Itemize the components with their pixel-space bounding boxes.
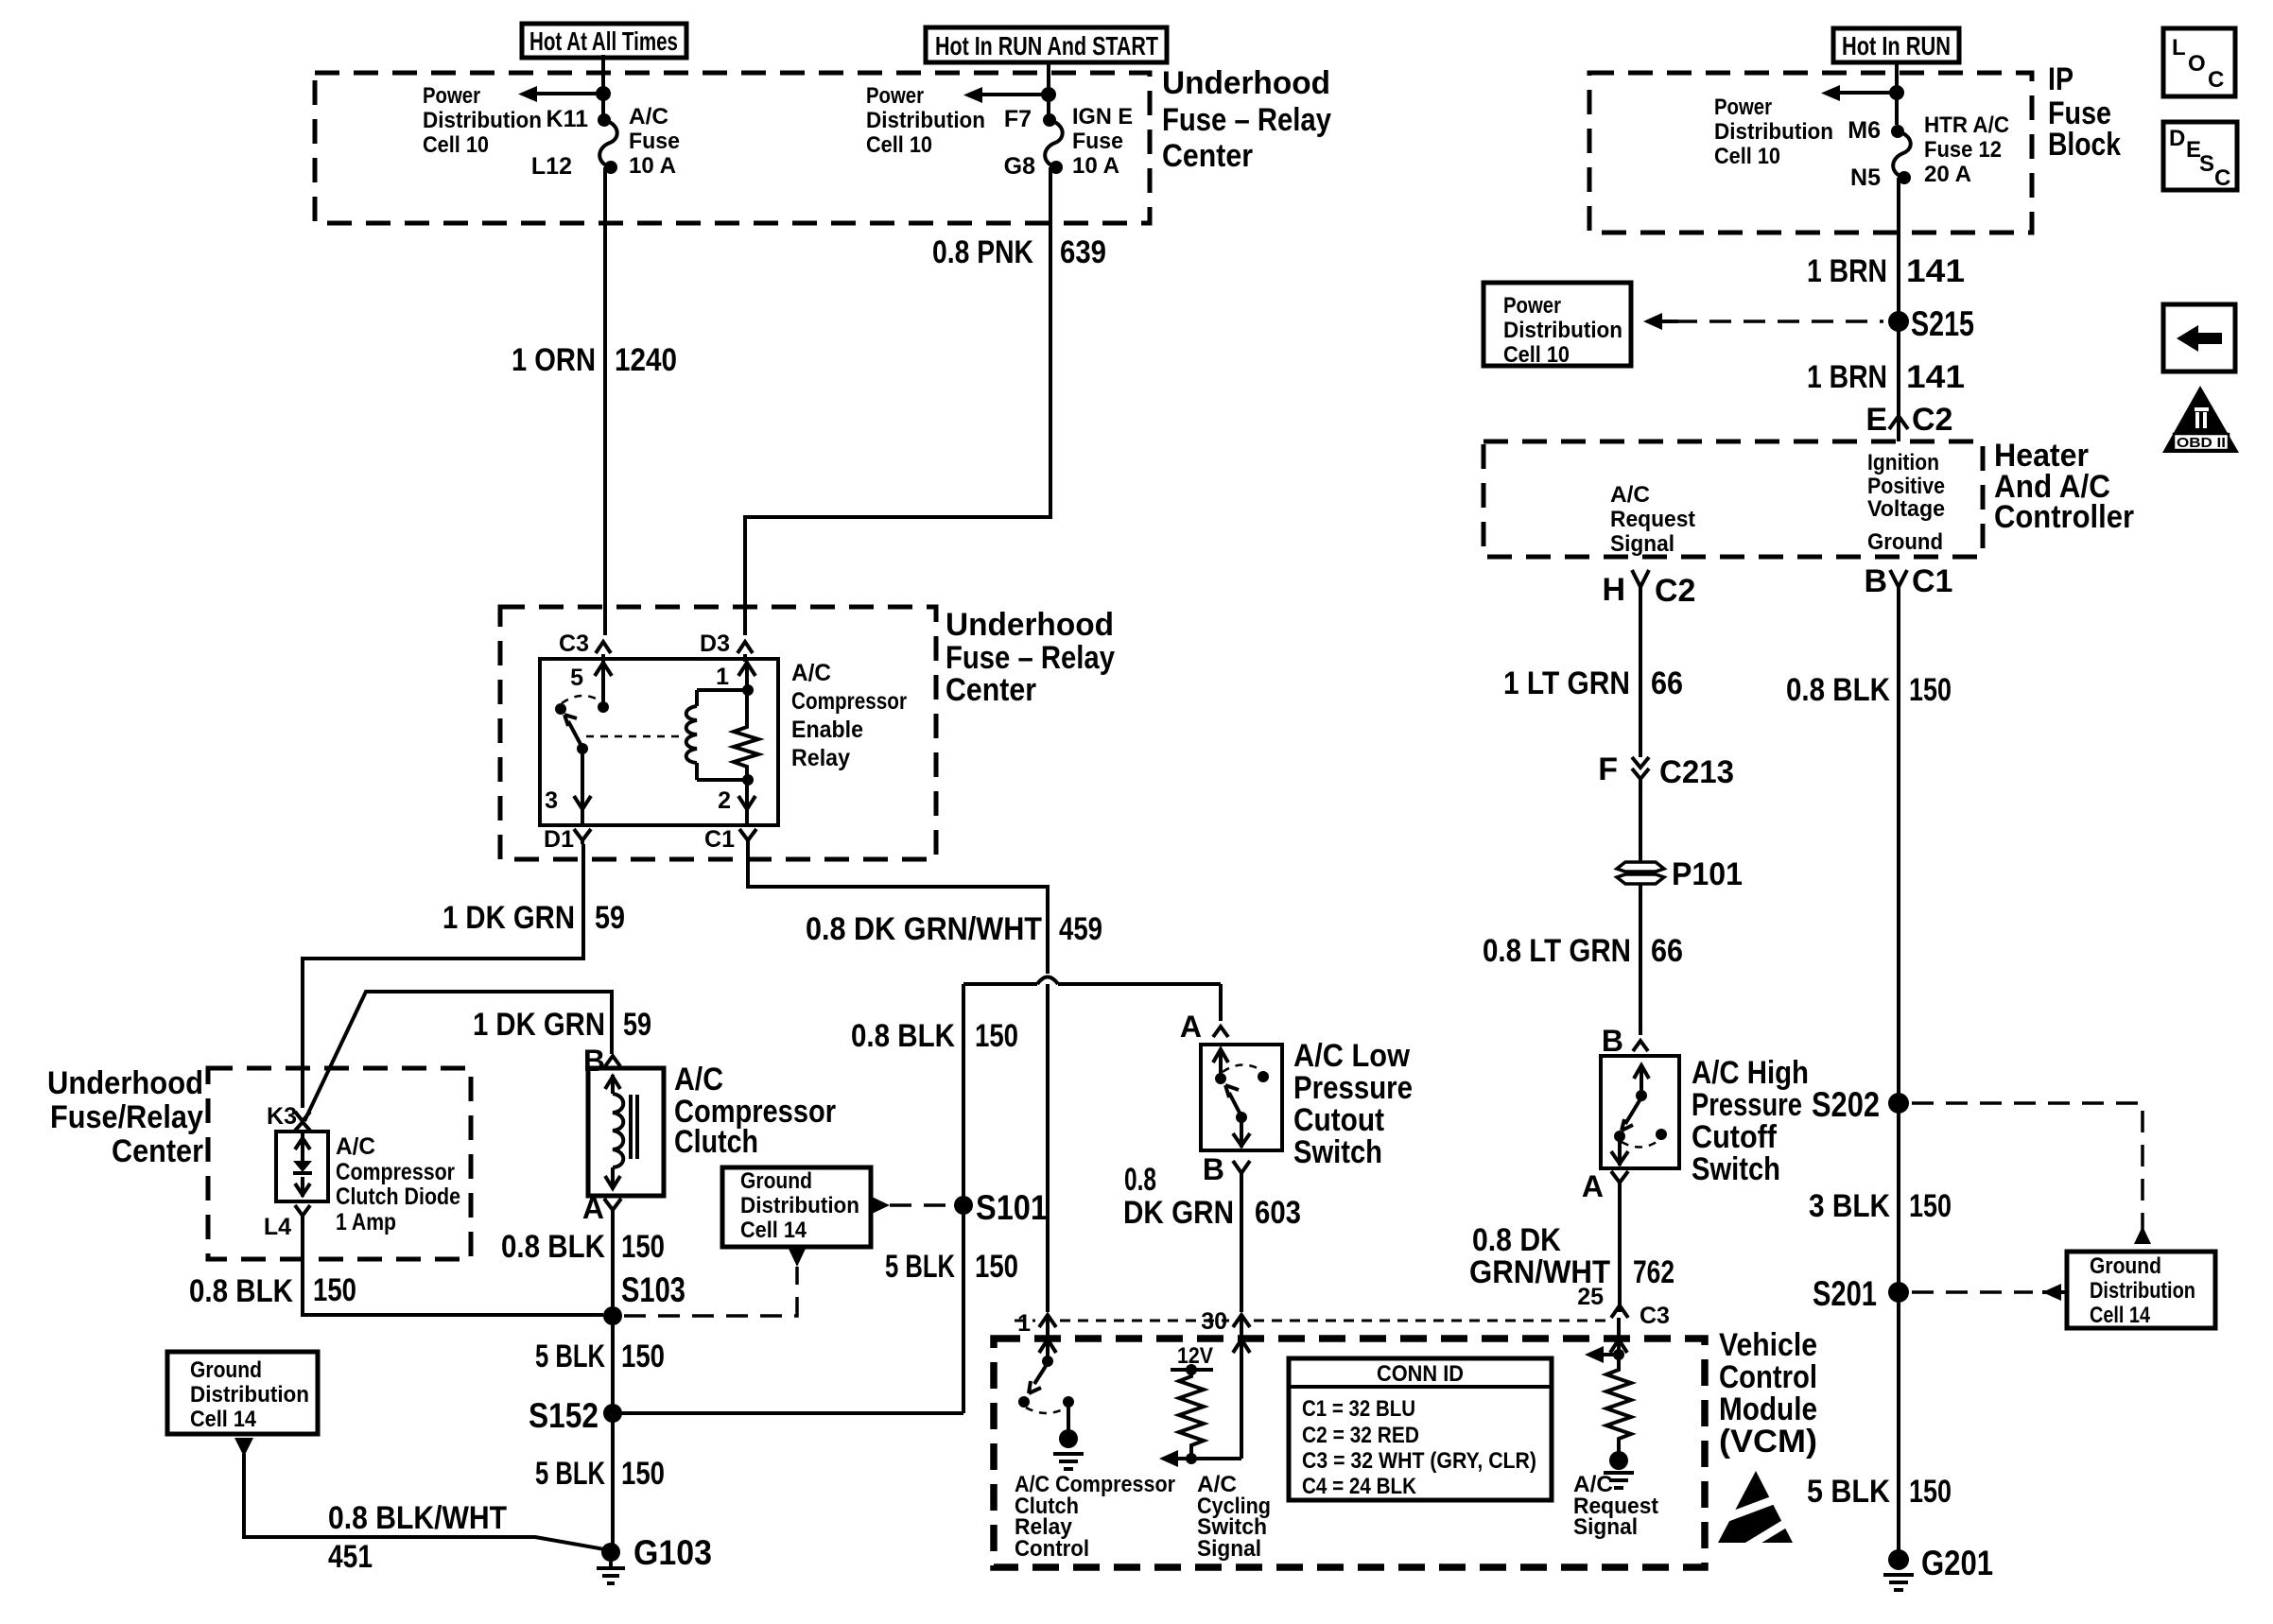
- svg-text:Cutoff: Cutoff: [1692, 1119, 1778, 1155]
- LOC icon box: [2163, 28, 2235, 96]
- label A/C Fuse 10 A: [629, 104, 680, 179]
- connector K3 symbol: [295, 1112, 310, 1131]
- label Underhood Fuse/Relay Center (left): [47, 1065, 203, 1169]
- label 0.8 LT GRN 66: [1483, 933, 1683, 969]
- pull-up resistor (cycling switch): [1179, 1370, 1204, 1455]
- high pressure switch blade with arrow: [1622, 1097, 1641, 1131]
- svg-text:12V: 12V: [1177, 1343, 1213, 1369]
- svg-text:E: E: [1865, 402, 1887, 438]
- node at top of IGN E fuse feed: [1041, 87, 1056, 102]
- label Ground Distribution Cell 14 (right): [2090, 1253, 2195, 1328]
- svg-text:G103: G103: [633, 1533, 712, 1572]
- IP fuse block dashed box: [1589, 73, 2032, 233]
- svg-text:N5: N5: [1850, 164, 1881, 191]
- svg-text:B: B: [583, 1044, 605, 1078]
- label Ground Distribution Cell 14 (middle): [740, 1168, 859, 1243]
- svg-text:Fuse: Fuse: [1072, 129, 1123, 154]
- svg-text:S202: S202: [1812, 1085, 1880, 1124]
- svg-text:762: 762: [1633, 1254, 1674, 1290]
- svg-text:C2 = 32 RED: C2 = 32 RED: [1302, 1423, 1419, 1448]
- svg-text:DK GRN: DK GRN: [1123, 1195, 1234, 1231]
- svg-text:1240: 1240: [615, 342, 677, 378]
- svg-text:Positive: Positive: [1867, 474, 1945, 499]
- svg-text:C1: C1: [704, 826, 735, 853]
- low pressure switch dashed arc: [1223, 1064, 1261, 1072]
- svg-text:141: 141: [1906, 253, 1965, 289]
- 12V supply bar: [1171, 1368, 1213, 1372]
- heater and A/C controller dashed box: [1484, 441, 1983, 557]
- connector B symbol (high pressure switch): [1633, 1041, 1648, 1051]
- relay switch dashed arc: [562, 696, 601, 703]
- svg-text:Cell 10: Cell 10: [423, 132, 489, 158]
- label 1 ORN 1240: [512, 342, 677, 378]
- svg-text:Cell 14: Cell 14: [740, 1218, 807, 1243]
- arrow down from G103-side ground distribution box: [234, 1438, 253, 1457]
- svg-text:Controller: Controller: [1994, 499, 2134, 535]
- svg-text:Signal: Signal: [1573, 1514, 1638, 1540]
- svg-text:B: B: [1203, 1152, 1224, 1186]
- wire S152 branch to right (to S101 column): [613, 1411, 963, 1415]
- connector A symbol (low pressure switch): [1213, 1027, 1228, 1037]
- relay switch pivot: [555, 703, 566, 715]
- svg-text:141: 141: [1906, 359, 1965, 395]
- splice S215: [1888, 311, 1909, 332]
- svg-text:Cell 10: Cell 10: [1503, 342, 1570, 368]
- label GRN/WHT 762: [1469, 1254, 1674, 1290]
- svg-text:(VCM): (VCM): [1719, 1424, 1817, 1460]
- svg-text:Underhood: Underhood: [946, 607, 1114, 643]
- connector chevron at VCM pin 30: [1233, 1315, 1250, 1327]
- label 0.8 BLK 150 (clutch leg): [501, 1229, 665, 1265]
- label 1 BRN 141 (upper): [1807, 253, 1965, 289]
- svg-text:0.8 PNK: 0.8 PNK: [932, 234, 1033, 270]
- label 5 BLK 150 (S101 wire below): [885, 1249, 1018, 1285]
- svg-text:Block: Block: [2048, 127, 2121, 163]
- wire 1 ORN 1240 from fuse to relay C3: [603, 167, 607, 635]
- svg-text:Enable: Enable: [791, 717, 863, 743]
- ESD symbol: [1718, 1471, 1796, 1546]
- underhood fuse-relay center dashed box (relay): [500, 607, 936, 859]
- svg-text:5 BLK: 5 BLK: [535, 1339, 605, 1374]
- svg-text:Distribution: Distribution: [1714, 119, 1833, 145]
- svg-text:Control: Control: [1015, 1536, 1089, 1562]
- label A/C Compressor Enable Relay: [791, 660, 907, 771]
- wire from C213 to P101: [1639, 785, 1642, 861]
- label 0.8 BLK 150 (S101 wire above): [851, 1018, 1018, 1054]
- wire 1 LT GRN 66 from H to C213: [1639, 594, 1642, 757]
- svg-text:C1: C1: [1912, 563, 1952, 599]
- svg-text:CONN ID: CONN ID: [1377, 1361, 1464, 1387]
- svg-text:150: 150: [313, 1272, 356, 1308]
- connector D1 symbol: [574, 829, 591, 844]
- ground distribution cell 14 box (right): [2067, 1252, 2215, 1328]
- wire from Hot In RUN And START into fuse F7: [1047, 62, 1050, 115]
- wire 0.8 PNK 639 from fuse down, left, to relay D3: [745, 167, 1050, 635]
- label A/C Compressor Clutch Diode 1 Amp: [336, 1133, 460, 1235]
- svg-text:S101: S101: [976, 1188, 1048, 1227]
- label Underhood Fuse - Relay Center (relay): [946, 607, 1115, 708]
- A/C compressor clutch box: [588, 1068, 664, 1196]
- arrow to Power Distribution Cell 10 (left fuse box): [518, 86, 603, 102]
- svg-text:Ground: Ground: [190, 1357, 262, 1383]
- svg-text:IGN E: IGN E: [1072, 104, 1133, 130]
- svg-text:Fuse – Relay: Fuse – Relay: [946, 640, 1115, 676]
- A/C compressor clutch relay control switch contact: [1042, 1356, 1053, 1367]
- svg-text:A/C Low: A/C Low: [1293, 1038, 1411, 1074]
- label Vehicle Control Module (VCM): [1719, 1327, 1817, 1460]
- svg-text:S152: S152: [529, 1396, 599, 1435]
- ground (relay control): [1053, 1429, 1084, 1469]
- high pressure switch second contact: [1656, 1129, 1667, 1140]
- svg-text:Underhood: Underhood: [47, 1065, 203, 1101]
- wire pin 1 into VCM with arrow: [1039, 1318, 1056, 1361]
- svg-text:Clutch Diode: Clutch Diode: [336, 1183, 460, 1210]
- resistor bottom node: [1186, 1453, 1197, 1464]
- svg-text:Center: Center: [946, 672, 1036, 708]
- label 3 BLK 150: [1809, 1188, 1952, 1224]
- svg-text:Request: Request: [1610, 507, 1695, 532]
- svg-text:20 A: 20 A: [1924, 162, 1971, 187]
- svg-text:L: L: [2172, 35, 2186, 60]
- svg-text:GRN/WHT: GRN/WHT: [1469, 1254, 1610, 1290]
- svg-text:Pressure: Pressure: [1293, 1070, 1413, 1106]
- label 1 BRN 141 (lower): [1807, 359, 1965, 395]
- svg-text:F: F: [1598, 752, 1618, 787]
- wire 0.8 DK GRN 603 from B to VCM pin 30: [1240, 1178, 1243, 1312]
- svg-text:Underhood: Underhood: [1162, 65, 1330, 101]
- splice S201: [1888, 1282, 1909, 1303]
- ground distribution cell 14 box (G103 side): [167, 1352, 318, 1434]
- label IP Fuse Block: [2048, 61, 2121, 163]
- wire S152 to G103: [611, 1413, 615, 1547]
- svg-text:0.8 LT GRN: 0.8 LT GRN: [1483, 933, 1631, 969]
- wire from D1 down-left to diode K3: [303, 844, 583, 1108]
- header box Hot In RUN: [1833, 28, 1959, 62]
- low pressure switch blade with arrow: [1225, 1085, 1247, 1123]
- connector D3 symbol: [737, 642, 753, 653]
- VCM dashed box: [994, 1339, 1705, 1567]
- OBD II triangle icon: [2162, 386, 2239, 453]
- svg-text:G8: G8: [1004, 153, 1035, 180]
- wire 0.8 LT GRN 66 from P101 to high pressure switch B: [1639, 883, 1642, 1035]
- wire from Hot In RUN into fuse M6: [1895, 62, 1899, 125]
- wire 3 BLK 150 from S202 to S201: [1897, 1103, 1900, 1292]
- A/C request resistor: [1606, 1355, 1631, 1452]
- svg-text:Power: Power: [1503, 293, 1561, 319]
- svg-text:5 BLK: 5 BLK: [1807, 1474, 1890, 1510]
- svg-text:2: 2: [718, 787, 731, 814]
- connector B C1 symbol: [1890, 570, 1907, 594]
- splice S202: [1888, 1093, 1909, 1114]
- svg-text:C2: C2: [1912, 402, 1952, 438]
- svg-text:C2: C2: [1655, 573, 1695, 609]
- svg-text:G201: G201: [1921, 1544, 1993, 1582]
- high pressure switch fixed contact and arrow: [1634, 1065, 1649, 1101]
- relay switch fixed contact (pin5 side): [598, 701, 609, 713]
- splice hump: [1037, 977, 1058, 985]
- splice S101: [954, 1196, 973, 1215]
- svg-text:Distribution: Distribution: [2090, 1278, 2195, 1304]
- ground (A/C request): [1604, 1451, 1634, 1488]
- svg-text:Control: Control: [1719, 1359, 1817, 1395]
- connector H C2 symbol: [1632, 570, 1649, 594]
- label 1 LT GRN 66: [1503, 665, 1683, 701]
- A/C compressor clutch diode symbol: [293, 1131, 312, 1197]
- svg-text:0.8: 0.8: [1124, 1162, 1156, 1198]
- svg-text:S103: S103: [621, 1270, 685, 1309]
- pin 5 wire with up arrow into relay: [595, 654, 612, 707]
- wire 5 BLK 150 from S201 to G201: [1897, 1292, 1900, 1551]
- svg-text:Fuse: Fuse: [629, 129, 680, 154]
- dashed link S215 to power distribution with left arrow: [1643, 313, 1883, 330]
- dashed link S201 to right ground distribution box with arrow: [1912, 1284, 2065, 1301]
- ground G201: [1883, 1549, 1914, 1590]
- svg-text:150: 150: [621, 1339, 665, 1374]
- dashed link S202 to right ground distribution box: [1912, 1103, 2143, 1234]
- svg-text:1 BRN: 1 BRN: [1807, 253, 1887, 289]
- svg-text:C3: C3: [559, 631, 589, 657]
- label Power Distribution Cell 10 (left fuse box): [423, 83, 542, 158]
- svg-text:Cutout: Cutout: [1293, 1102, 1384, 1138]
- relay coil bottom node: [742, 774, 754, 786]
- header box Hot In RUN And START: [926, 27, 1167, 62]
- svg-text:1 DK GRN: 1 DK GRN: [442, 900, 575, 936]
- svg-text:Fuse – Relay: Fuse – Relay: [1162, 102, 1331, 138]
- label A/C Request Signal (VCM): [1573, 1472, 1658, 1540]
- low pressure switch second contact: [1258, 1071, 1269, 1082]
- node at top of A/C fuse feed: [596, 86, 611, 101]
- relay coil top node: [742, 684, 754, 696]
- svg-text:3: 3: [545, 787, 558, 814]
- wire 0.8 BLK 150 from clutch A to S103: [611, 1214, 615, 1315]
- svg-text:L4: L4: [264, 1214, 291, 1240]
- svg-text:603: 603: [1255, 1195, 1301, 1231]
- svg-text:D3: D3: [700, 631, 730, 657]
- high pressure switch dashed arc: [1622, 1140, 1659, 1148]
- svg-text:0.8 BLK: 0.8 BLK: [501, 1229, 605, 1265]
- svg-text:B: B: [1864, 563, 1887, 599]
- svg-text:A/C: A/C: [791, 660, 831, 686]
- svg-text:Ground: Ground: [1867, 529, 1943, 555]
- svg-text:0.8 DK GRN/WHT: 0.8 DK GRN/WHT: [806, 911, 1042, 947]
- svg-text:Compressor: Compressor: [791, 688, 907, 715]
- svg-text:L12: L12: [531, 153, 572, 180]
- svg-text:Ignition: Ignition: [1867, 450, 1939, 475]
- svg-text:IP: IP: [2048, 61, 2073, 97]
- wire 0.8 DK GRN/WHT 762 from A to VCM pin 25: [1618, 1187, 1622, 1312]
- wire 1 BRN 141 from fuse to S215: [1897, 178, 1900, 321]
- svg-text:H: H: [1602, 572, 1625, 608]
- connector chevron at VCM pin 25: [1611, 1305, 1628, 1318]
- svg-text:Switch: Switch: [1293, 1134, 1382, 1170]
- arrow from ground distribution cell 14 (middle box): [789, 1249, 806, 1267]
- svg-text:OBD II: OBD II: [2177, 435, 2226, 451]
- label Underhood Fuse - Relay Center (top): [1162, 65, 1331, 174]
- svg-text:Signal: Signal: [1610, 531, 1674, 557]
- svg-text:Hot In RUN And START: Hot In RUN And START: [935, 31, 1158, 60]
- svg-text:Center: Center: [1162, 138, 1253, 174]
- wire 1 BRN 141 from S215 to E C2: [1897, 321, 1900, 408]
- right branch wire down to low pressure switch A: [1219, 984, 1223, 1021]
- svg-text:Cell 14: Cell 14: [2090, 1303, 2151, 1328]
- fuse IGN E (symbol): [1043, 113, 1063, 174]
- label 0.8 PNK 639: [932, 234, 1106, 270]
- svg-text:Cell 10: Cell 10: [866, 132, 932, 158]
- center branch wire down to VCM pin 1: [1046, 984, 1050, 1312]
- svg-text:O: O: [2188, 51, 2206, 77]
- relay link dashed line (blade to coil): [586, 735, 684, 738]
- svg-text:C4 = 24 BLK: C4 = 24 BLK: [1302, 1474, 1417, 1499]
- svg-text:Vehicle: Vehicle: [1719, 1327, 1817, 1363]
- svg-text:451: 451: [328, 1539, 373, 1575]
- svg-text:66: 66: [1651, 665, 1683, 701]
- DESC icon box: [2163, 122, 2237, 191]
- svg-text:S215: S215: [1911, 304, 1974, 343]
- svg-text:Clutch: Clutch: [674, 1124, 758, 1160]
- label DK GRN 603: [1123, 1195, 1301, 1231]
- label A/C Compressor Clutch Relay Control: [1015, 1472, 1175, 1562]
- svg-text:150: 150: [1909, 1474, 1952, 1510]
- svg-text:HTR A/C: HTR A/C: [1924, 112, 2009, 138]
- splice S103: [603, 1306, 622, 1325]
- svg-text:0.8 BLK: 0.8 BLK: [1786, 672, 1890, 708]
- svg-text:10 A: 10 A: [629, 153, 676, 179]
- A/C request node: [1613, 1349, 1624, 1360]
- label IGN E Fuse 10 A: [1072, 104, 1133, 179]
- svg-text:F7: F7: [1004, 106, 1032, 132]
- relay coil: [686, 690, 748, 780]
- svg-text:Module: Module: [1719, 1391, 1817, 1427]
- svg-text:0.8 BLK: 0.8 BLK: [851, 1018, 955, 1054]
- svg-text:Pressure: Pressure: [1692, 1087, 1802, 1123]
- connector C1 symbol: [739, 829, 756, 844]
- arrow to Power Distribution Cell 10 (IP): [1821, 85, 1897, 101]
- svg-text:C1 = 32 BLU: C1 = 32 BLU: [1302, 1396, 1415, 1422]
- svg-text:A/C: A/C: [674, 1062, 723, 1097]
- label Ground Distribution Cell 14 (G103 side): [190, 1357, 309, 1432]
- svg-text:Fuse/Relay: Fuse/Relay: [50, 1099, 203, 1135]
- label A/C Request Signal (controller): [1610, 482, 1695, 557]
- svg-text:Distribution: Distribution: [190, 1382, 309, 1408]
- A/C low pressure cutout switch box: [1201, 1045, 1282, 1150]
- svg-text:Fuse 12: Fuse 12: [1924, 137, 2002, 163]
- connector F C213 symbol: [1632, 757, 1649, 785]
- splice horizontal to left branch and right branch: [963, 982, 1221, 986]
- wire pin 30 into VCM down to signal line: [1233, 1318, 1250, 1459]
- svg-text:Distribution: Distribution: [1503, 318, 1622, 343]
- wire from C1 to splice (0.8 DK GRN/WHT 459): [748, 844, 1048, 974]
- svg-text:S201: S201: [1813, 1274, 1877, 1313]
- svg-text:A/C: A/C: [1610, 482, 1650, 508]
- svg-text:S: S: [2199, 151, 2214, 177]
- svg-text:150: 150: [621, 1456, 665, 1492]
- label 0.8 BLK 150 (right): [1786, 672, 1952, 708]
- svg-text:A/C: A/C: [629, 104, 668, 130]
- low pressure switch fixed contact and arrow: [1213, 1049, 1228, 1084]
- pin 1 wire with up arrow into relay: [738, 654, 755, 723]
- wire 0.8 BLK 150 from L4 to S103: [303, 1222, 603, 1315]
- underhood fuse-relay center dashed box (top): [315, 73, 1150, 223]
- svg-text:Cell 10: Cell 10: [1714, 144, 1780, 169]
- svg-text:Relay: Relay: [791, 745, 850, 771]
- svg-text:Center: Center: [112, 1133, 203, 1169]
- dashed link S103 to ground distribution arrow: [624, 1267, 797, 1316]
- svg-text:Distribution: Distribution: [740, 1193, 859, 1218]
- connector C3 symbol: [596, 642, 611, 653]
- svg-text:A: A: [1180, 1010, 1202, 1044]
- relay switch blade with arrow: [564, 715, 582, 748]
- relay control switch dashed arc: [1026, 1408, 1067, 1413]
- svg-text:C: C: [2208, 67, 2224, 93]
- svg-text:150: 150: [975, 1249, 1018, 1285]
- svg-text:150: 150: [621, 1229, 665, 1265]
- svg-text:Power: Power: [1714, 95, 1772, 120]
- svg-text:C3: C3: [1640, 1303, 1670, 1329]
- svg-text:150: 150: [975, 1018, 1018, 1054]
- svg-text:Hot At All Times: Hot At All Times: [529, 26, 678, 56]
- svg-text:0.8 BLK: 0.8 BLK: [189, 1273, 293, 1309]
- low pressure switch exit arrow to B: [1233, 1117, 1250, 1148]
- label 1 DK GRN 59 (clutch leg): [473, 1007, 651, 1043]
- svg-text:Power: Power: [423, 83, 480, 109]
- svg-text:3 BLK: 3 BLK: [1809, 1188, 1890, 1224]
- connector E C2 symbol: [1889, 406, 1908, 441]
- label A/C Compressor Clutch: [674, 1062, 836, 1160]
- svg-text:1 DK GRN: 1 DK GRN: [473, 1007, 605, 1043]
- connector B symbol (low pressure switch): [1233, 1161, 1250, 1178]
- svg-text:0.8 BLK/WHT: 0.8 BLK/WHT: [328, 1500, 507, 1536]
- label HTR A/C Fuse 12 20 A: [1924, 112, 2009, 187]
- arrow to Power Distribution Cell 10 (IGN E fuse): [963, 87, 1049, 103]
- relay switch blade node: [577, 743, 588, 754]
- connector A symbol (clutch): [604, 1199, 621, 1214]
- cycling switch signal line with left arrow: [1159, 1450, 1241, 1467]
- node at top of HTR A/C fuse feed: [1889, 85, 1904, 100]
- label 5 BLK 150 (S103-S152): [535, 1339, 665, 1374]
- svg-text:M6: M6: [1848, 117, 1881, 144]
- svg-text:Voltage: Voltage: [1867, 496, 1945, 522]
- svg-text:Hot In RUN: Hot In RUN: [1842, 31, 1951, 60]
- svg-text:Power: Power: [866, 83, 924, 109]
- back arrow icon box: [2163, 304, 2235, 371]
- fuse HTR A/C (symbol): [1891, 125, 1911, 184]
- svg-text:5 BLK: 5 BLK: [535, 1456, 605, 1492]
- grommet P101: [1617, 862, 1664, 884]
- label Power Distribution Cell 10 (IGN E fuse): [866, 83, 985, 158]
- svg-text:K11: K11: [547, 106, 589, 132]
- svg-text:0.8 DK: 0.8 DK: [1472, 1222, 1561, 1258]
- svg-text:1 Amp: 1 Amp: [336, 1209, 396, 1235]
- splice S152: [603, 1404, 622, 1423]
- connector L4 symbol: [295, 1205, 310, 1222]
- svg-text:59: 59: [595, 900, 625, 936]
- svg-text:D1: D1: [544, 826, 574, 853]
- ground distribution cell 14 box (middle): [722, 1167, 871, 1247]
- label A/C High Pressure Cutoff Switch: [1692, 1055, 1809, 1187]
- svg-text:A: A: [582, 1191, 604, 1225]
- svg-text:A: A: [1582, 1169, 1604, 1203]
- svg-text:150: 150: [1909, 1188, 1952, 1224]
- svg-text:1: 1: [716, 664, 729, 690]
- label Heater And A/C Controller: [1994, 438, 2134, 535]
- svg-text:150: 150: [1909, 672, 1952, 708]
- svg-text:639: 639: [1060, 234, 1106, 270]
- svg-text:1: 1: [1017, 1310, 1031, 1337]
- connector A symbol (high pressure switch): [1611, 1171, 1628, 1187]
- wire 0.8 BLK/WHT 451 from box to G103: [244, 1454, 610, 1550]
- fuse A/C (symbol): [598, 113, 617, 174]
- arrow right from middle ground distribution box: [872, 1197, 890, 1214]
